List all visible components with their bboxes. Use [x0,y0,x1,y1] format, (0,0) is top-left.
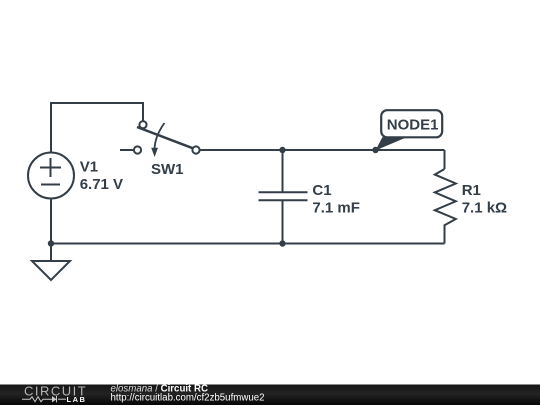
NODE1 callout box [381,110,442,137]
V1 minus sign [41,184,60,186]
wire C1 bottom [282,201,284,244]
junction node dot C1 bottom [279,240,285,246]
wire V1 bottom to ground node [50,198,52,261]
svg-text:http://circuitlab.com/cf2zb5uf: http://circuitlab.com/cf2zb5ufmwue2 [111,393,265,404]
wire C1 top [282,150,284,192]
wire V1 top to corner [51,103,143,153]
svg-text:V1: V1 [80,158,98,175]
switch SW1 blade [137,127,193,148]
svg-text:NODE1: NODE1 [387,117,439,134]
junction node dot ground [48,240,54,246]
switch SW1 common terminal circle [192,146,199,153]
wire bottom net [51,243,445,245]
switch SW1 open throw stub [120,149,134,151]
CircuitLab logo circuit squiggle [22,396,66,402]
junction node dot NODE1 [372,147,378,153]
svg-text:6.71 V: 6.71 V [80,176,123,193]
wire main horizontal node1 net [200,149,445,151]
V1 plus sign [40,158,61,177]
switch SW1 arrowhead [151,148,158,157]
junction node dot C1 top [279,147,285,153]
wire right branch down to R1 [444,150,446,169]
svg-text:7.1 mF: 7.1 mF [312,200,360,217]
svg-text:SW1: SW1 [151,161,184,178]
svg-text:C1: C1 [312,182,331,199]
capacitor C1 plates [259,192,308,200]
svg-text:7.1 kΩ: 7.1 kΩ [462,200,507,217]
CircuitLab logo diode [52,396,57,402]
switch SW1 top terminal circle [139,121,146,128]
switch SW1 open throw terminal circle [134,146,141,153]
svg-text:LAB: LAB [67,395,87,404]
voltage source V1 circle [28,153,74,199]
NODE1 callout tail [376,137,407,150]
ground symbol triangle [32,261,70,280]
wire R1 bottom [444,227,446,244]
switch SW1 actuation arc [155,123,165,148]
resistor R1 zigzag [435,169,456,227]
svg-text:R1: R1 [462,182,481,199]
